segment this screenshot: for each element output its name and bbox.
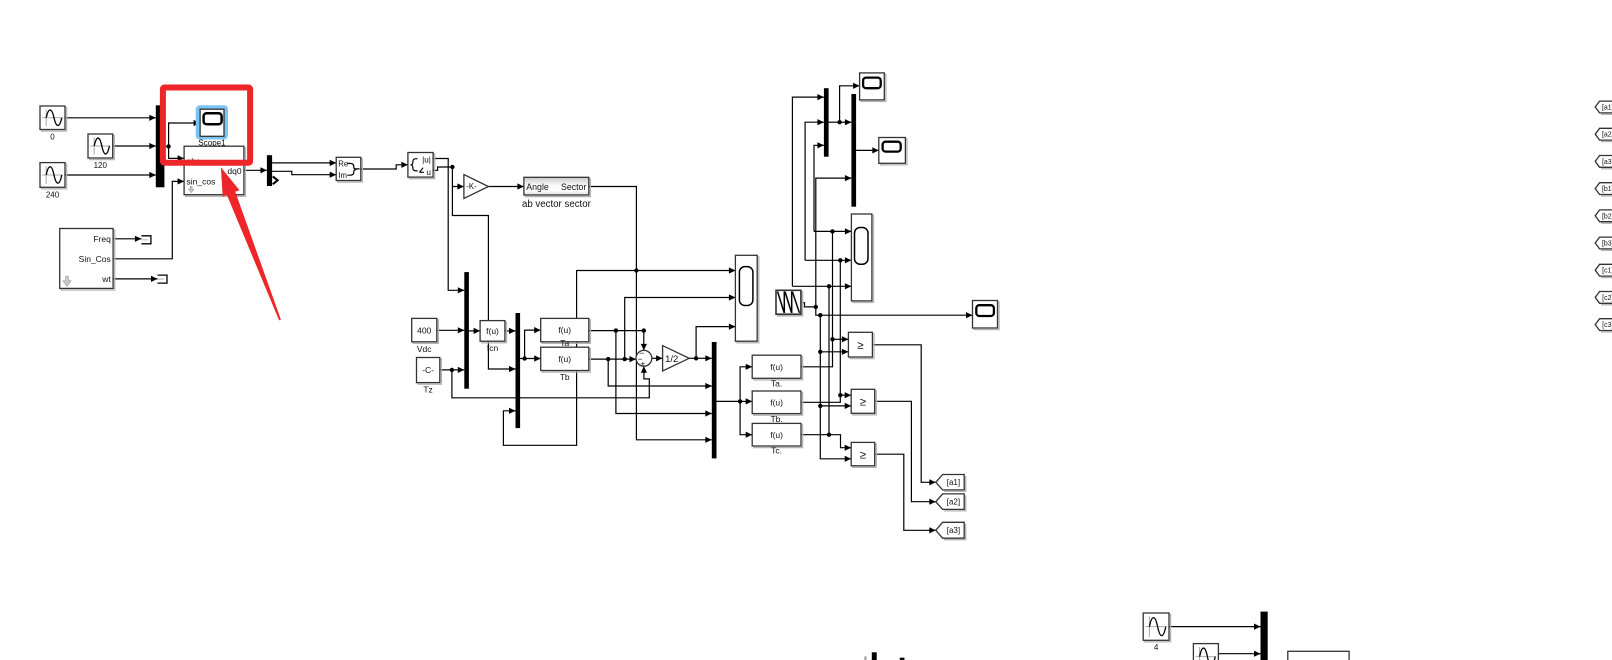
node J17 Ta. riser top — [830, 229, 834, 233]
wire Real-Imag to Complex output to Complex to Magnitude-Angle — [361, 162, 408, 169]
node J4 on Tz wire — [450, 368, 454, 372]
svg-text:[a3]: [a3] — [947, 526, 960, 535]
mux M7 — [1261, 612, 1268, 660]
wire magnitude |u| to mux M2 input 1 — [433, 159, 464, 294]
node J7 on Ta row — [642, 328, 646, 332]
mux fragment bottom left — [864, 652, 876, 660]
wire Tc. riser — [828, 286, 830, 434]
wire Sine0 to mux M1 — [65, 115, 156, 121]
wire node J3 to mux M3 input 3 (feedback left) — [503, 271, 636, 446]
wire Ta output row — [589, 330, 644, 332]
from tag b1 — [1595, 183, 1612, 196]
node J20 on Tc. row — [827, 433, 831, 437]
wire node J1 to abc port — [169, 146, 185, 161]
svg-text:dq0: dq0 — [227, 166, 241, 176]
wire node J5 to Tb block — [525, 355, 541, 361]
wire dq0 output to demux D1 — [244, 167, 267, 173]
node J18 Tb. riser to GE2 — [838, 393, 842, 397]
wire node J9 to scope S5 input 2 — [625, 294, 736, 359]
svg-text:fcn: fcn — [487, 343, 499, 353]
node J10 — [694, 356, 698, 360]
wire node J8 to mux M4 input 2 — [608, 359, 712, 389]
wire carrier down line — [820, 315, 851, 462]
node J3 — [634, 268, 638, 272]
gain -K- — [464, 175, 489, 199]
node J22 — [837, 120, 841, 124]
mux M3 — [516, 313, 521, 428]
terminator T2 — [158, 275, 168, 283]
function Tc. f(u) — [752, 423, 802, 455]
wire riser to mux M5 input 2 — [805, 119, 824, 260]
wire Sine120 to mux M1 — [113, 143, 156, 149]
svg-text:Vdc: Vdc — [417, 344, 432, 354]
svg-text:f(u): f(u) — [770, 362, 783, 372]
sine wave source bottom partial — [1193, 644, 1218, 660]
wire node J6 to mux M4 input 3 — [616, 331, 712, 417]
wire Ta. output riser — [801, 231, 833, 366]
svg-text:[b1]: [b1] — [1602, 186, 1612, 193]
svg-text:[b2]: [b2] — [1602, 213, 1612, 220]
mux M4 — [712, 342, 717, 458]
wire scope S6 input 2 row — [805, 257, 851, 263]
svg-text:≥: ≥ — [860, 449, 866, 461]
sine wave source Sine4 — [1143, 613, 1170, 652]
svg-text:[a3]: [a3] — [1602, 159, 1612, 166]
svg-text:4: 4 — [1154, 643, 1159, 652]
node J9 on Tb row — [623, 357, 627, 361]
svg-text:Tc.: Tc. — [771, 446, 782, 456]
constant 400 Vdc — [412, 318, 439, 353]
subsystem Freq Sin_Cos wt — [60, 229, 115, 291]
wire node J11 to Tb. block — [740, 398, 752, 404]
from tag b3 — [1595, 237, 1612, 250]
wire node J2 to gain -K- — [452, 167, 464, 190]
wire gain -K- to Angle input — [488, 183, 524, 189]
svg-text:Ta.: Ta. — [771, 378, 782, 388]
function fcn f(u) — [480, 321, 506, 353]
wire node J2 to mux M3 input 2 — [452, 187, 515, 373]
svg-text:Tb.: Tb. — [770, 414, 782, 424]
wire mux M4 output to node J11 — [717, 400, 741, 402]
from tag c1 — [1595, 264, 1612, 277]
wire constant -C- to mux M2 input 3 — [440, 367, 465, 373]
svg-text:120: 120 — [94, 161, 108, 170]
svg-text:Sector: Sector — [561, 182, 586, 192]
svg-text:Im: Im — [338, 171, 347, 180]
svg-text:f(u): f(u) — [486, 326, 499, 336]
wire node J22 to mux M6 input 1 — [840, 119, 852, 125]
wire wt output to terminator T2 — [113, 276, 157, 282]
wire node J11 to Tc. block — [740, 401, 752, 437]
svg-text:[a2]: [a2] — [947, 498, 960, 507]
svg-text:Sin_Cos: Sin_Cos — [79, 254, 111, 264]
wire GE2 output to goto a2 — [875, 401, 936, 505]
scope S5 — [735, 255, 758, 342]
wire Tb output row to sum S1 left input — [589, 356, 636, 362]
wire constant 400 to mux M2 input 2 — [437, 327, 465, 333]
svg-text:sin_cos: sin_cos — [187, 176, 216, 186]
wire mux M3 output to node J5 — [520, 358, 525, 360]
sine wave source Sine120 — [88, 134, 114, 170]
gain 1/2 — [663, 346, 690, 371]
wire node J13 to Scope4 — [820, 312, 972, 318]
sawtooth source — [776, 290, 803, 316]
svg-text:Freq: Freq — [93, 234, 111, 244]
sum S1 — [636, 348, 652, 368]
from tag c2 — [1595, 292, 1612, 305]
label ab vector sector — [522, 199, 592, 210]
node J2 — [450, 165, 454, 169]
svg-text:-K-: -K- — [466, 182, 477, 191]
subsystem abc to dq0 — [184, 146, 245, 196]
wire node J12 to node J13 — [816, 307, 821, 315]
node J15 carrier to GE2 — [818, 404, 822, 408]
wire Sin_Cos output to sin_cos port — [113, 178, 184, 258]
node J12 — [814, 305, 818, 309]
svg-text:≥: ≥ — [860, 397, 866, 409]
wire Sine4 to mux M7 — [1169, 624, 1261, 630]
goto tag a3 — [936, 522, 966, 539]
wire node J1 to Scope1 — [169, 120, 201, 146]
block bottom partial — [1288, 651, 1349, 660]
wire scope S6 input 1 row — [814, 228, 851, 234]
annotation red arrow — [221, 167, 281, 320]
wire riser to mux M5 input 3 — [814, 142, 824, 231]
node J21 Tc. riser top — [827, 284, 831, 288]
wire bottom sine to mux M7 — [1218, 651, 1260, 657]
wire Tz node J4 to sum S1 bottom input — [452, 366, 649, 398]
svg-text:wt: wt — [101, 274, 111, 284]
wire demux D1 out2 to Im port — [272, 171, 336, 178]
wire scope S6 input 3 row — [792, 283, 851, 289]
from tag a2 — [1595, 128, 1612, 141]
wire node J16 to GE1 top input — [833, 336, 849, 342]
function Ta f(u) — [541, 318, 591, 348]
annotation red rectangle — [163, 88, 250, 163]
svg-text:-C-: -C- — [422, 365, 434, 375]
svg-text:[b3]: [b3] — [1602, 241, 1612, 248]
function Ta. f(u) — [752, 355, 802, 388]
relational operator GE2 — [851, 389, 876, 415]
mux M5 — [824, 88, 829, 157]
wire mux M2 to fcn — [469, 328, 480, 334]
wire Sine240 to mux M1 — [65, 172, 156, 178]
svg-text:≥: ≥ — [857, 340, 863, 352]
svg-text:Re: Re — [338, 159, 348, 168]
svg-text:400: 400 — [417, 325, 431, 335]
node J11 — [738, 399, 742, 403]
svg-text:u: u — [426, 168, 431, 177]
mux M1 — [156, 105, 165, 187]
svg-text:[a1]: [a1] — [947, 478, 960, 487]
svg-text:240: 240 — [46, 190, 60, 199]
wire node J3 to mux M4 input 4 — [636, 271, 711, 443]
from tag a1 — [1595, 101, 1612, 114]
node J14 carrier to GE1 — [818, 350, 822, 354]
wire node J3 to scope S5 input 1 — [636, 267, 735, 273]
mux M6 — [851, 94, 856, 207]
goto tag a2 — [936, 494, 966, 511]
node J16 Ta. riser to GE1 — [830, 337, 834, 341]
node J8 on Tb row — [606, 357, 610, 361]
wire sawtooth output to node J12 — [801, 303, 816, 307]
wire fcn to mux M3 input 1 — [505, 328, 516, 334]
wire node J22 to Scope2 — [840, 83, 860, 123]
wire mux M5 output to node J22 — [829, 121, 840, 123]
wire GE3 output to goto a3 — [875, 454, 936, 533]
svg-text:[a2]: [a2] — [1602, 132, 1612, 139]
wire mux M6 output to Scope3 — [856, 147, 879, 153]
svg-text:Tb: Tb — [560, 372, 570, 382]
subsystem ab vector sector — [524, 177, 591, 196]
svg-text:f(u): f(u) — [558, 325, 571, 335]
from tag a3 — [1595, 156, 1612, 169]
goto tag a1 — [936, 475, 966, 492]
svg-text:ab vector sector: ab vector sector — [522, 199, 592, 210]
node J19 Tb. riser top — [838, 258, 842, 262]
wire gain 1/2 to node J10 — [689, 357, 696, 359]
svg-text:[c1]: [c1] — [1602, 268, 1612, 275]
svg-text:[a1]: [a1] — [1602, 105, 1612, 112]
function Tb f(u) — [541, 347, 591, 382]
block Complex to Magnitude-Angle — [408, 153, 435, 179]
wire GE1 output to goto a1 — [872, 345, 935, 486]
svg-text:|u|: |u| — [422, 156, 431, 165]
wire node J7 to sum S1 top input — [641, 331, 647, 351]
wire sum S1 to gain 1/2 — [652, 355, 663, 361]
wire node J11 to Ta. block — [740, 364, 752, 402]
block Real-Imag to Complex — [336, 157, 362, 182]
svg-text:f(u): f(u) — [770, 430, 783, 440]
from tag b2 — [1595, 210, 1612, 223]
wire riser to mux M5 input 1 — [792, 94, 824, 286]
wire demux D1 out1 to Re port — [272, 160, 336, 166]
scope Scope2 — [860, 73, 886, 102]
svg-text:1/2: 1/2 — [665, 354, 678, 365]
scope S6 — [851, 214, 873, 303]
svg-text:0: 0 — [50, 133, 55, 142]
scope Scope1 (selected) — [196, 105, 228, 147]
svg-text:[c2]: [c2] — [1602, 295, 1612, 302]
wire mux M1 output to node J1 — [164, 145, 168, 147]
node J13 — [818, 313, 822, 317]
svg-text:[c3]: [c3] — [1602, 322, 1612, 329]
svg-text:Tz: Tz — [423, 385, 432, 395]
wire node J10 to scope S5 input 3 — [696, 324, 735, 359]
wire node J15 to GE2 bottom input — [820, 403, 851, 409]
wire node J5 to Ta block — [525, 327, 541, 359]
sine wave source Sine240 — [40, 163, 67, 200]
wire node J18 to GE2 top input — [840, 392, 851, 398]
node J5 — [522, 356, 526, 360]
relational operator GE1 — [848, 332, 874, 358]
scope Scope4 — [973, 301, 1000, 330]
wire Freq output to terminator T1 — [113, 236, 141, 242]
node J1 — [166, 144, 170, 148]
terminator T1 — [141, 236, 151, 244]
wire angle output to node J2 — [433, 167, 452, 170]
constant -C- Tz — [417, 358, 442, 395]
svg-text:+: + — [640, 358, 645, 368]
wire node J12 riser to mux M6 input 2 — [816, 175, 852, 307]
wire node J14 to GE1 bottom input — [820, 349, 848, 355]
wire Tb. output riser — [801, 260, 840, 402]
sine wave source Sine0 — [40, 106, 67, 142]
relational operator GE3 — [851, 442, 876, 467]
wire Sector output to node J3 — [589, 187, 637, 271]
function Tb. f(u) — [752, 391, 802, 424]
from tag c3 — [1595, 319, 1612, 332]
wire Tc. output row — [801, 435, 851, 451]
node J6 on Ta row — [614, 328, 618, 332]
wire node J10 to mux M4 input 1 — [696, 355, 712, 361]
node fragment bottom — [900, 658, 905, 660]
svg-text:f(u): f(u) — [558, 354, 571, 364]
svg-text:Angle: Angle — [526, 182, 549, 192]
svg-text:f(u): f(u) — [770, 398, 783, 408]
mux M2 — [464, 272, 469, 389]
demux D1 — [267, 155, 278, 186]
scope Scope3 — [879, 138, 907, 165]
